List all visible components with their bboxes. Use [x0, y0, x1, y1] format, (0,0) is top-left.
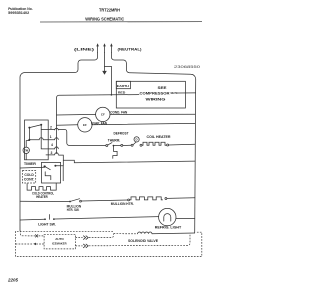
- terminal hook 3: [55, 153, 59, 155]
- svg-text:DEFROST: DEFROST: [114, 132, 130, 136]
- timer contact dot A: [40, 124, 42, 126]
- refrigerator lamp: [159, 208, 176, 225]
- mullion switch blade: [71, 199, 80, 202]
- wire line side to left bus: [20, 53, 98, 231]
- terminal hook 2: [55, 128, 59, 130]
- svg-text:COLD: COLD: [24, 173, 34, 177]
- wire heater to right bus: [169, 143, 195, 146]
- timer branch to terminal 2: [41, 128, 55, 130]
- svg-text:3: 3: [50, 151, 52, 155]
- light row mid: [55, 217, 159, 219]
- cold control heater right lead: [51, 183, 57, 190]
- svg-text:COIL HEATER: COIL HEATER: [147, 135, 172, 139]
- wire bus to cold control: [20, 166, 44, 169]
- timer wire C to terminal 1 with hop: [29, 138, 54, 140]
- cold control box: [42, 162, 61, 183]
- cold control bellows: [45, 172, 51, 180]
- power cord prong ground: [103, 43, 106, 52]
- svg-text:REFRIG. LIGHT: REFRIG. LIGHT: [155, 226, 182, 230]
- light row left: [20, 218, 44, 221]
- svg-text:1: 1: [50, 135, 52, 139]
- dashed up to solenoid row: [89, 234, 114, 238]
- timer dot C: [28, 139, 30, 141]
- svg-text:SOLENOID VALVE: SOLENOID VALVE: [128, 239, 159, 243]
- junction dot red/earth: [111, 94, 113, 96]
- splice X upper: [35, 235, 37, 237]
- mullion switch terminal: [80, 200, 82, 202]
- terminal hook 4: [55, 147, 59, 149]
- mullion heater resistor: [130, 197, 163, 200]
- timer wire B down to C: [28, 128, 30, 140]
- timer switch blade: [29, 125, 41, 128]
- svg-text:4: 4: [51, 143, 53, 147]
- svg-text:HEATER: HEATER: [36, 195, 48, 199]
- limit switch blade: [133, 142, 136, 145]
- icemaker out upper: [75, 237, 82, 239]
- timer contact dot B: [28, 127, 30, 129]
- svg-text:AUTO: AUTO: [55, 237, 64, 241]
- ground chassis arrow: [104, 66, 106, 71]
- wire defrost mid: [123, 144, 131, 146]
- svg-text:TRT22MRH: TRT22MRH: [99, 7, 120, 12]
- dashed wire to icemaker box: [39, 235, 45, 237]
- timer terminal stub 3: [46, 154, 55, 156]
- auto icemaker box: [44, 234, 75, 249]
- svg-text:SEE: SEE: [158, 86, 168, 90]
- svg-text:5995351402: 5995351402: [8, 11, 29, 15]
- svg-text:2205: 2205: [7, 277, 19, 282]
- icemaker enclosure dashed: [16, 231, 202, 256]
- timer box: [25, 120, 49, 160]
- svg-text:D: D: [136, 138, 138, 142]
- svg-text:(NEUTRAL): (NEUTRAL): [118, 48, 142, 52]
- light switch dot left: [44, 218, 46, 220]
- cond fan motor: [96, 107, 110, 121]
- svg-text:WIRING: WIRING: [146, 98, 167, 102]
- wire coil to bus: [152, 232, 195, 235]
- defrost thermostat terminal: [106, 145, 108, 147]
- icemaker out lower: [75, 245, 82, 247]
- cold control blade: [45, 166, 51, 169]
- svg-text:COND. FAN: COND. FAN: [110, 111, 127, 115]
- cold control heater left lead: [27, 184, 31, 191]
- lamp filament: [164, 214, 171, 221]
- wire white to right bus: [178, 92, 196, 94]
- wire cold control out: [55, 160, 63, 165]
- svg-text:WHITE: WHITE: [171, 91, 178, 95]
- wire neutral side to right bus: [111, 53, 195, 233]
- svg-text:EF: EF: [83, 123, 87, 127]
- power cord prong LINE: [96, 43, 99, 52]
- solenoid coil: [138, 232, 152, 234]
- mullion row left: [20, 200, 69, 202]
- connector chevrons upper: [83, 236, 88, 240]
- svg-text:EARTH: EARTH: [117, 84, 129, 88]
- defrost terminal: [121, 144, 123, 146]
- timer motor TM: [26, 141, 29, 148]
- mullion switch dot: [69, 201, 71, 203]
- wire stub right of cold control: [62, 166, 64, 181]
- svg-text:MULLION HTR.: MULLION HTR.: [111, 202, 134, 206]
- circled device D: [134, 137, 139, 142]
- terminal hook 1: [55, 138, 59, 140]
- svg-text:EVAP. FAN: EVAP. FAN: [91, 121, 108, 125]
- splice X lower: [33, 243, 36, 246]
- coil heater resistor: [142, 142, 166, 145]
- defrost sensor meander: [113, 146, 117, 159]
- light switch plunger: [49, 215, 51, 220]
- compressor box: [116, 81, 185, 108]
- cold cont dashed label box: [23, 171, 36, 184]
- svg-text:TM: TM: [24, 149, 29, 153]
- dashed wire lower to right jog: [89, 233, 190, 246]
- mullion heater terminal right: [165, 198, 167, 200]
- solenoid row: [114, 233, 138, 235]
- dashed wire to icemaker box lower: [36, 243, 44, 245]
- power cord prong NEUTRAL: [110, 43, 113, 52]
- svg-text:CF: CF: [101, 113, 105, 117]
- wire dot to terminal: [114, 144, 120, 146]
- heater terminal right: [167, 144, 169, 146]
- timer internal vertical from A: [41, 125, 55, 149]
- svg-text:LIGHT SW.: LIGHT SW.: [38, 222, 56, 226]
- wire lamp to bus: [176, 217, 195, 219]
- wire cond fan row right: [110, 113, 195, 115]
- svg-text:HTR. SW.: HTR. SW.: [67, 208, 80, 212]
- wire red from timer bus: [57, 95, 140, 154]
- wire bus into icemaker dashed: [20, 231, 35, 236]
- svg-text:COMPRESSOR: COMPRESSOR: [140, 92, 171, 96]
- wire terminal3 to cold control run: [59, 155, 195, 163]
- svg-text:(LINE): (LINE): [74, 48, 94, 52]
- defrost thermostat blade: [108, 143, 112, 146]
- cold control heater resistor: [32, 187, 51, 191]
- mullion heater terminal left: [128, 199, 130, 201]
- lower feed dashed: [16, 243, 33, 245]
- svg-text:WIRING SCHEMATIC: WIRING SCHEMATIC: [85, 17, 124, 22]
- wire evap fan row right: [92, 123, 195, 124]
- mullion row mid: [81, 200, 127, 201]
- light switch dot right: [53, 218, 55, 220]
- heater terminal left: [140, 144, 142, 146]
- cold control left terminal: [43, 165, 45, 167]
- svg-text:THERM.: THERM.: [108, 138, 121, 142]
- svg-text:2: 2: [50, 125, 52, 129]
- header rule: [40, 21, 202, 23]
- wire mullion to bus: [167, 197, 195, 200]
- wire ground prong drop: [105, 53, 112, 95]
- svg-text:23068550: 23068550: [174, 65, 200, 69]
- evap fan motor: [78, 118, 92, 132]
- cold control right terminal: [54, 165, 56, 167]
- wire cond fan row left: [57, 113, 96, 116]
- svg-text:TIMER: TIMER: [24, 162, 37, 166]
- limit switch terminal: [131, 144, 133, 146]
- wire evap fan row left: [57, 124, 78, 126]
- wire terminal2 to defrost row: [59, 129, 106, 145]
- connector chevrons lower: [83, 244, 88, 248]
- earth terminal minibox: [116, 81, 130, 88]
- svg-text:ICEMAKER: ICEMAKER: [52, 241, 67, 245]
- defrost junction dot: [113, 145, 115, 147]
- svg-text:RED: RED: [118, 91, 126, 95]
- svg-text:CONT.: CONT.: [24, 178, 35, 182]
